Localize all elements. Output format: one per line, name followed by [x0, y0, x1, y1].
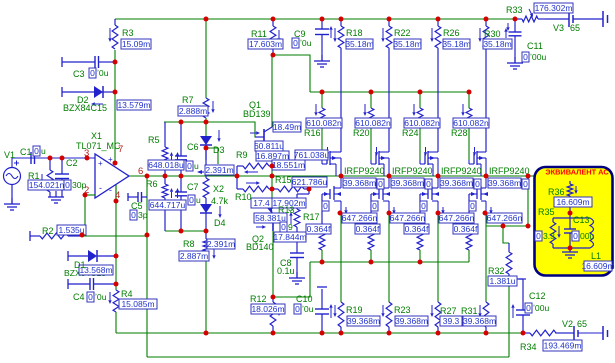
junction (485,213): [483, 211, 488, 216]
svg-text:V2: V2: [562, 319, 573, 329]
wire lower gate rail: [310, 261, 469, 263]
value box 16.609m: [554, 197, 592, 207]
svg-text:0: 0: [295, 304, 300, 314]
resistor R31: [483, 302, 489, 327]
svg-text:V1: V1: [4, 150, 15, 160]
wire source column col4: [485, 213, 487, 302]
resistor R12: [272, 297, 274, 302]
resistor R5: [164, 122, 166, 147]
svg-text:6: 6: [138, 166, 143, 177]
value box 39.368m: [488, 178, 521, 188]
svg-text:R17: R17: [303, 212, 320, 222]
junction (82,235): [80, 233, 85, 238]
svg-text:7: 7: [118, 144, 123, 155]
svg-text:39.368m: 39.368m: [343, 178, 376, 188]
ground V1: [11, 198, 13, 204]
svg-text:0: 0: [90, 68, 95, 78]
value box 647.266n: [342, 213, 377, 223]
value box 2.391m: [205, 165, 234, 175]
svg-text:35.18m: 35.18m: [393, 39, 421, 49]
svg-text:ʼ0u: ʼ0u: [95, 292, 107, 302]
svg-text:0: 0: [421, 201, 426, 211]
svg-text:0.364f: 0.364f: [307, 224, 331, 234]
value box 0.364f: [306, 224, 331, 234]
resistor R35: [552, 218, 554, 222]
value box 0: [33, 146, 40, 156]
mosfet lower IRFP9240 col1: [329, 189, 331, 199]
battery V3 terminal: [602, 11, 604, 27]
junction (340,213): [338, 211, 343, 216]
zener D1 BZX84C15: [67, 251, 69, 261]
resistor R22: [388, 19, 390, 26]
wire RLC top bar: [553, 217, 590, 219]
value box 0: [522, 52, 529, 62]
value box 761.038u: [295, 150, 328, 160]
value box 610.082n: [306, 118, 342, 128]
svg-text:R22: R22: [394, 28, 411, 38]
junction (322,92): [320, 90, 325, 95]
mosfet upper IRFP9240 col1: [326, 154, 328, 164]
junction (272,176): [270, 174, 275, 179]
junction (523,333): [521, 331, 526, 336]
svg-text:648.018u: 648.018u: [148, 160, 184, 170]
wire R11 to rail-2 jog: [273, 55, 310, 92]
junction (165,176): [163, 174, 168, 179]
value box 60.811u: [255, 141, 283, 151]
value box 644.717u: [149, 200, 186, 210]
ground R1/C2: [55, 191, 57, 197]
svg-text:0: 0: [65, 180, 70, 190]
value box 648.018u: [148, 160, 184, 170]
junction (62,158): [60, 156, 65, 161]
svg-text:R30: R30: [484, 29, 501, 39]
junction (438,333): [436, 331, 441, 336]
svg-text:D3: D3: [213, 145, 225, 155]
svg-text:IRFP9240: IRFP9240: [344, 166, 385, 176]
resistor R33: [515, 18, 522, 20]
svg-text:R36: R36: [548, 187, 565, 197]
wire Q1 base net: [206, 122, 258, 137]
svg-text:647.266n: 647.266n: [487, 213, 523, 223]
value box 0: [525, 303, 532, 313]
junction (322,333): [320, 331, 325, 336]
svg-text:621.786u: 621.786u: [292, 177, 328, 187]
svg-text:X1: X1: [91, 131, 102, 141]
value box 35.18m: [443, 39, 470, 49]
wire bottom -65V rail: [116, 332, 530, 334]
junction (438,19): [436, 17, 441, 22]
speaker equivalent box: [535, 167, 613, 276]
value box 0: [89, 68, 96, 78]
wire RLC bottom bar: [553, 247, 590, 249]
junction (469,92): [467, 90, 472, 95]
value box 0: [294, 304, 301, 314]
value box 15.09m: [121, 39, 151, 49]
svg-text:IRFP9240: IRFP9240: [441, 166, 482, 176]
value box 193.469m: [543, 340, 582, 351]
value box 17.844m: [274, 232, 306, 242]
value box 2.888m: [178, 106, 208, 116]
battery V3 65: [568, 11, 570, 27]
svg-text:V3: V3: [553, 23, 564, 33]
junction (570,213): [568, 211, 573, 216]
value box 610.082n: [453, 118, 489, 128]
wire source column col2: [388, 213, 390, 302]
wire Q2 collector down to R12 node: [272, 231, 274, 297]
trimmer X2: [205, 146, 207, 178]
svg-text:ʼ00u: ʼ00u: [533, 303, 549, 313]
mosfet upper IRFP9240 col2: [375, 154, 377, 164]
svg-text:ʼ0u: ʼ0u: [302, 304, 314, 314]
svg-text:0: 0: [470, 201, 475, 211]
value box 13.568m: [79, 265, 113, 275]
wire gate rail-2: [310, 91, 469, 93]
svg-text:ʼ00u: ʼ00u: [530, 52, 546, 62]
svg-text:u: u: [196, 195, 201, 205]
svg-text:0: 0: [189, 195, 194, 205]
svg-text:17.4: 17.4: [253, 198, 270, 208]
svg-text:R7: R7: [182, 95, 194, 105]
value box 18.49m: [273, 122, 301, 132]
junction (486,176): [484, 174, 489, 179]
wire output bus: [129, 175, 536, 177]
value box 0: [130, 210, 137, 220]
svg-text:647.266n: 647.266n: [342, 213, 378, 223]
svg-text:0.364f: 0.364f: [405, 224, 429, 234]
resistor R19: [338, 302, 344, 327]
ground C8: [296, 272, 298, 278]
svg-text:2.391m: 2.391m: [205, 165, 233, 175]
svg-text:647.266n: 647.266n: [439, 213, 475, 223]
svg-text:15.09m: 15.09m: [122, 39, 150, 49]
value box 17.603m: [248, 39, 283, 49]
diode D4: [205, 198, 207, 204]
svg-text:ЭКВИВАЛЕНТ АС: ЭКВИВАЛЕНТ АС: [545, 168, 609, 177]
svg-text:R5: R5: [148, 135, 160, 145]
value box 0 source: [425, 179, 432, 189]
value box 13.579m: [117, 100, 151, 110]
source V1: [4, 168, 21, 185]
wire output node drop to R32: [527, 176, 529, 226]
svg-text:2.391m: 2.391m: [207, 239, 235, 249]
svg-text:R23: R23: [394, 305, 411, 315]
svg-text:R12: R12: [250, 294, 267, 304]
value box 39.368m: [347, 316, 380, 326]
value box 0: [188, 195, 195, 205]
svg-text:647.266n: 647.266n: [390, 213, 426, 223]
zener D2 BZX84C15: [61, 87, 63, 97]
junction (206,148): [204, 146, 209, 151]
svg-text:R26: R26: [443, 28, 460, 38]
svg-text:C3: C3: [73, 69, 85, 79]
svg-text:C4: C4: [73, 292, 85, 302]
svg-text:BD139: BD139: [243, 109, 271, 119]
svg-text:39.368m: 39.368m: [488, 178, 521, 188]
value box 39.368m: [391, 178, 424, 188]
junction (389,19): [387, 17, 392, 22]
svg-text:R4: R4: [121, 289, 133, 299]
svg-text:C2: C2: [66, 158, 78, 168]
ground C11: [514, 57, 516, 63]
value box 0: [292, 38, 299, 48]
resistor gate-lower col1: [321, 194, 323, 233]
svg-text:0: 0: [34, 146, 39, 156]
wire -supply column: [115, 184, 117, 290]
wire V1 to ground: [11, 184, 13, 204]
wire output into speaker box: [536, 176, 570, 181]
wire Q1 collector: [271, 56, 273, 127]
svg-text:60.811u: 60.811u: [254, 141, 284, 151]
svg-text:ʼ0u: ʼ0u: [300, 38, 312, 48]
capacitor C13: [569, 218, 571, 229]
value box 0.364f: [404, 224, 429, 234]
svg-text:R8: R8: [183, 239, 195, 249]
junction (50,158): [48, 156, 53, 161]
resistor R1: [49, 158, 51, 170]
svg-text:0.1u: 0.1u: [277, 266, 295, 276]
svg-text:39.368m: 39.368m: [347, 316, 380, 326]
svg-text:R13: R13: [278, 205, 295, 215]
svg-text:R10: R10: [235, 192, 252, 202]
junction (389,213): [387, 211, 392, 216]
junction (206,122): [204, 120, 209, 125]
value box 17.4: [251, 198, 272, 208]
junction (341,176): [339, 174, 344, 179]
junction (116,201): [114, 199, 119, 204]
resistor R10: [237, 188, 243, 190]
svg-text:R11: R11: [251, 29, 267, 39]
value box 610.082n: [404, 118, 440, 128]
svg-text:u: u: [41, 146, 46, 156]
junction (116,256): [114, 254, 119, 259]
svg-text:-: -: [99, 183, 102, 193]
junction (528,226): [526, 224, 531, 229]
junction (272,166): [270, 164, 275, 169]
value box 18.026m: [251, 304, 285, 314]
svg-text:ʼ0u: ʼ0u: [97, 68, 109, 78]
resistor R16: [321, 92, 323, 108]
wire op-amp pin2 stub: [85, 194, 95, 196]
svg-text:BD140: BD140: [246, 242, 274, 252]
junction (147,176): [145, 174, 150, 179]
mosfet upper IRFP9240 col4: [473, 154, 475, 164]
svg-text:0.364f: 0.364f: [356, 224, 380, 234]
svg-text:C9: C9: [294, 29, 306, 39]
value box 176.302m: [534, 3, 573, 13]
junction (309,189): [307, 187, 312, 192]
resistor R32: [508, 243, 510, 252]
value box 0 source: [474, 179, 481, 189]
capacitor C11: [514, 19, 516, 32]
svg-text:18.551m: 18.551m: [272, 160, 305, 170]
svg-text:176.302m: 176.302m: [535, 3, 573, 13]
junction (206,333): [204, 331, 209, 336]
value box 647.266n: [487, 213, 522, 223]
junction (438,213): [436, 211, 441, 216]
junction (116,284): [114, 282, 119, 287]
svg-text:BZX84C15: BZX84C15: [63, 103, 107, 113]
wire D3 bottom jog: [206, 148, 218, 164]
capacitor C3: [61, 57, 63, 67]
value box 18.551m: [272, 160, 305, 170]
op-amp X1 TL071: [95, 154, 129, 198]
junction (87,158): [85, 156, 90, 161]
svg-text:R19: R19: [346, 305, 363, 315]
svg-text:IRFP9240: IRFP9240: [392, 166, 433, 176]
svg-text:R33: R33: [506, 5, 523, 15]
wire source column col3: [437, 213, 439, 302]
svg-text:39.3: 39.3: [443, 316, 460, 326]
mosfet upper IRFP9240 col3: [424, 154, 426, 164]
wire source column col1: [340, 213, 342, 302]
value box 0 gate: [322, 201, 329, 211]
svg-text:3.3: 3.3: [543, 231, 555, 241]
svg-text:0: 0: [281, 222, 286, 232]
ground C9: [321, 55, 323, 61]
wire Q1 emitter ladder column: [271, 148, 273, 209]
junction (486,19): [484, 17, 489, 22]
value box 39.368m: [440, 178, 473, 188]
svg-text:R20: R20: [353, 128, 370, 138]
svg-text:C5: C5: [131, 201, 143, 211]
junction (420,92): [418, 90, 423, 95]
svg-text:D1: D1: [74, 260, 86, 270]
value box 0: [186, 161, 193, 171]
wire V1 top lead: [11, 158, 13, 167]
svg-text:9: 9: [288, 222, 293, 232]
svg-text:0.364f: 0.364f: [454, 224, 478, 234]
svg-text:R32: R32: [488, 266, 505, 276]
svg-text:R34: R34: [520, 342, 537, 352]
value box 2.391m: [207, 239, 235, 249]
value box 39.368m: [343, 178, 376, 188]
svg-text:0: 0: [573, 231, 578, 241]
value box 647.266n: [390, 213, 425, 223]
resistor R8: [203, 239, 209, 251]
junction (438,176): [436, 174, 441, 179]
svg-text:16.609m: 16.609m: [556, 197, 589, 207]
value box 39.3: [440, 316, 462, 326]
junction (371,262): [369, 260, 374, 265]
value box 0.364f: [355, 224, 380, 234]
junction (389,333): [387, 331, 392, 336]
svg-text:0: 0: [372, 201, 377, 211]
junction (181,176): [179, 174, 184, 179]
value box 39.368m: [463, 316, 496, 326]
value box 0 source: [377, 179, 384, 189]
svg-text:2.887m: 2.887m: [180, 251, 208, 261]
wire Q2 emitter node to C8: [273, 236, 297, 238]
wire feedback riser to R32 node: [508, 282, 510, 357]
resistor R11: [272, 19, 274, 26]
svg-text:C6: C6: [187, 142, 199, 152]
svg-text:610.082n: 610.082n: [404, 118, 440, 128]
svg-text:17.844m: 17.844m: [273, 232, 306, 242]
svg-text:154.021n: 154.021n: [29, 180, 65, 190]
value box 58.381u: [254, 213, 287, 223]
junction (181,122): [179, 120, 184, 125]
junction (341,333): [339, 331, 344, 336]
svg-text:0: 0: [536, 231, 541, 241]
wire feedback network rail: [164, 121, 206, 123]
resistor R36: [569, 181, 571, 184]
capacitor C10: [317, 286, 327, 288]
capacitor C9: [321, 19, 323, 29]
svg-text:L1: L1: [591, 251, 601, 261]
svg-text:35.18m: 35.18m: [483, 39, 511, 49]
value box 1.535u: [57, 225, 86, 235]
junction (147,235): [145, 233, 150, 238]
junction (515,19): [513, 17, 518, 22]
svg-text:-: -: [109, 185, 112, 195]
wire op-amp pin4 stub: [115, 185, 117, 201]
svg-text:R35: R35: [538, 207, 555, 217]
svg-text:TL071_MC: TL071_MC: [76, 141, 121, 151]
svg-text:C7: C7: [187, 182, 199, 192]
svg-text:C11: C11: [527, 41, 543, 51]
mosfet lower IRFP9240 col2: [378, 189, 380, 199]
svg-text:17.603m: 17.603m: [249, 39, 282, 49]
value box 621.786u: [292, 177, 327, 187]
wire left feedback vertical: [146, 176, 148, 357]
svg-text:C12: C12: [529, 291, 546, 301]
ground speaker box: [569, 246, 571, 252]
wire rail to V2: [555, 332, 574, 334]
resistor R20: [370, 92, 372, 108]
svg-text:0: 0: [426, 179, 431, 189]
junction (115,163): [113, 161, 118, 166]
value box 16.897m: [256, 151, 289, 161]
junction (486,333): [484, 331, 489, 336]
resistor gate-lower col3: [419, 194, 421, 233]
junction (273,297): [271, 295, 276, 300]
resistor R28: [468, 92, 470, 108]
svg-text:18.49m: 18.49m: [273, 122, 301, 132]
svg-text:15.085m: 15.085m: [121, 299, 154, 309]
svg-text:610.082n: 610.082n: [355, 118, 391, 128]
svg-text:R15: R15: [275, 175, 292, 185]
value box 0: [87, 292, 94, 302]
value box 35.18m: [483, 39, 512, 49]
resistor R24: [419, 92, 421, 108]
mosfet lower IRFP9240 col4: [476, 189, 478, 199]
svg-text:0: 0: [293, 38, 298, 48]
value box 16.609m: [584, 261, 612, 271]
svg-text:R6: R6: [146, 179, 158, 189]
svg-text:0: 0: [526, 303, 531, 313]
capacitor C6: [180, 122, 182, 156]
value box 0 gate: [469, 201, 476, 211]
wire Q2 base: [254, 220, 273, 222]
svg-text:C10: C10: [296, 294, 313, 304]
battery V2 terminal: [602, 326, 604, 340]
value box 0: [572, 231, 579, 241]
svg-text:35.18m: 35.18m: [442, 39, 470, 49]
wire bottom feedback run: [147, 356, 509, 358]
junction (273,333): [271, 331, 276, 336]
capacitor C12: [509, 278, 523, 280]
svg-text:IRFP9240: IRFP9240: [489, 166, 530, 176]
wire R6/C7 bottom tie: [165, 230, 206, 232]
svg-text:R27: R27: [440, 306, 457, 316]
value box 39.368m: [395, 316, 428, 326]
svg-text:3p: 3p: [138, 210, 148, 220]
svg-text:18.026m: 18.026m: [251, 304, 284, 314]
resistor R30: [485, 19, 487, 26]
resistor gate-lower col2: [370, 194, 372, 233]
value box 610.082n: [355, 118, 391, 128]
resistor R26: [437, 19, 439, 26]
